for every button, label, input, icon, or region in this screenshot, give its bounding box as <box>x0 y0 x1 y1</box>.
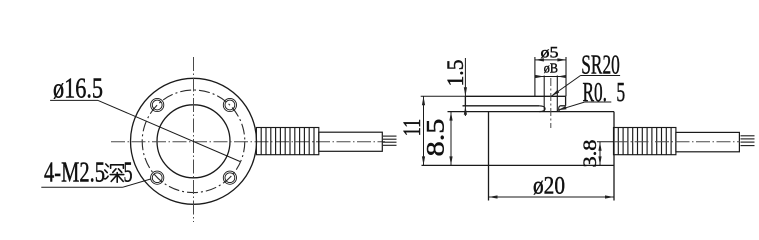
svg-text:ø16.5: ø16.5 <box>53 73 103 104</box>
svg-text:SR20: SR20 <box>581 49 620 80</box>
horizontal centerline <box>111 141 385 143</box>
cable left view <box>319 132 383 151</box>
leader 4-M2.5 to hole <box>123 179 152 187</box>
inner circle (plate) <box>157 105 230 178</box>
wire lead 1 (left view) <box>383 135 397 137</box>
hole M2.5 bottom-left <box>151 171 164 184</box>
body rectangle <box>422 112 615 201</box>
bolt circle ø16.5 (dash-dot) <box>142 90 245 193</box>
wire lead 1 (right view) <box>741 135 755 137</box>
leader ø16.5 to bolt circle <box>98 100 240 161</box>
vertical centerline <box>193 57 195 222</box>
label 4-M2.5深5 <box>41 158 132 189</box>
leader R0.5 <box>557 102 585 112</box>
wire lead 2 (right view) <box>741 138 755 140</box>
glyph 深 (hand-drawn) <box>105 164 124 182</box>
leader SR20 <box>550 76 580 98</box>
svg-text:8.5: 8.5 <box>421 119 450 157</box>
dim 8.5 <box>421 112 453 166</box>
dim ø5 <box>535 44 567 61</box>
svg-text:1.5: 1.5 <box>443 60 468 87</box>
gap rounded cap left <box>539 106 545 112</box>
outer circle (body ø20) <box>131 78 257 204</box>
hole M2.5 top-left <box>151 98 164 111</box>
dim 3.8 <box>580 140 614 168</box>
cable centerline right view <box>614 141 740 143</box>
dim ø20 <box>489 170 615 199</box>
svg-text:øB: øB <box>544 62 558 77</box>
svg-text:4-M2.5: 4-M2.5 <box>44 158 105 189</box>
stem øB sides <box>544 76 557 112</box>
hole M2.5 bottom-right <box>223 171 236 184</box>
dim øB <box>535 62 566 79</box>
dim 1.5 <box>443 58 468 116</box>
svg-text:3.8: 3.8 <box>580 140 601 168</box>
top plate (bar) <box>463 96 566 106</box>
cable right view <box>676 132 740 151</box>
wire lead 3 (right view) <box>741 141 755 143</box>
cable gland left view (corrugated) <box>256 128 318 155</box>
label R0.5 <box>583 77 626 107</box>
boss centerline <box>550 78 552 128</box>
dim 11 <box>397 96 465 165</box>
wire lead 4 (right view) <box>741 145 755 147</box>
svg-text:5: 5 <box>124 158 133 189</box>
label SR20 <box>581 49 621 80</box>
svg-text:ø20: ø20 <box>533 170 565 199</box>
cable gland right view (corrugated) <box>614 128 676 155</box>
wire lead 2 (left view) <box>383 138 397 140</box>
gap rounded cap right <box>559 106 561 112</box>
wire lead 4 (left view) <box>383 144 397 146</box>
label ø16.5 <box>50 73 103 104</box>
hole M2.5 top-right <box>223 98 236 111</box>
wire lead 3 (left view) <box>383 141 397 143</box>
svg-text:5: 5 <box>616 77 625 107</box>
boss ø5 sides <box>535 57 566 96</box>
